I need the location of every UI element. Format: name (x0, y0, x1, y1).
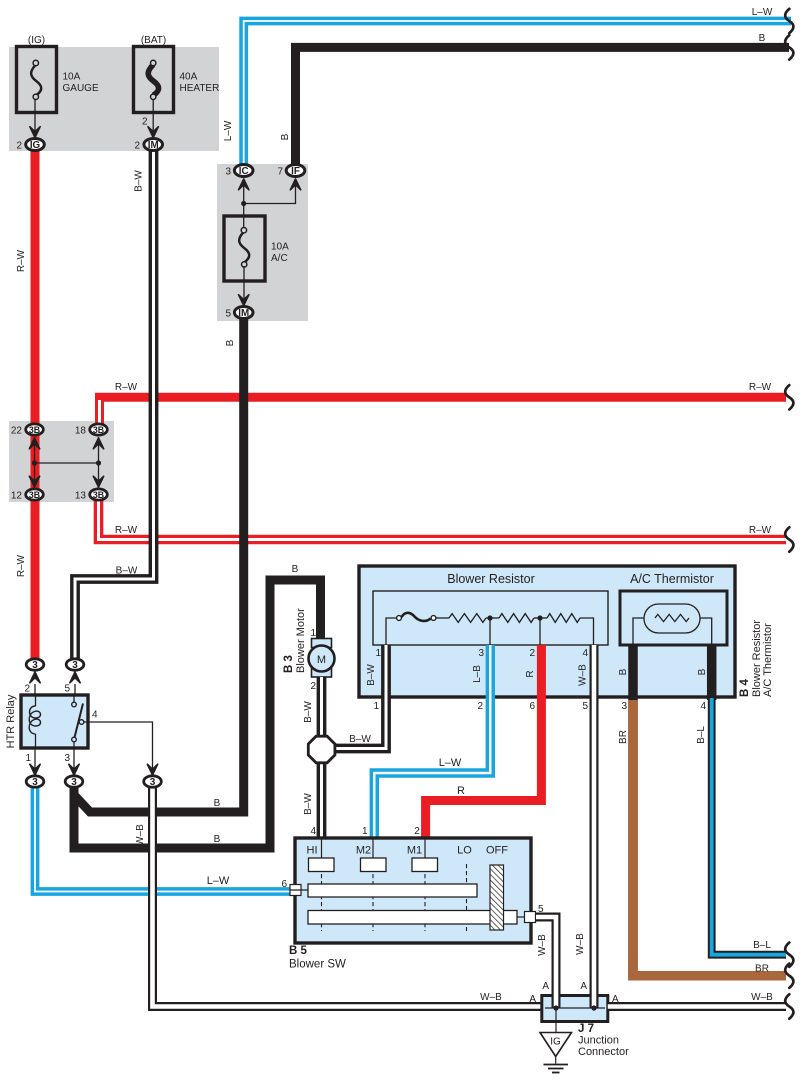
wire R-W striped from 3B pin 13 to right edge (99, 498, 787, 540)
svg-text:5: 5 (225, 309, 231, 320)
label 5 at IM (225, 309, 231, 320)
svg-text:B: B (759, 33, 766, 44)
label L-W horizontal (439, 757, 462, 769)
switch slider bar 2 (308, 911, 517, 925)
wire fuse A/C to IM (243, 266, 245, 300)
svg-text:B: B (214, 798, 221, 809)
svg-text:R–W: R–W (16, 249, 27, 272)
label B rotated near fuse (225, 339, 236, 346)
fuse 40A HEATER box (134, 47, 174, 113)
relay switch contact (72, 695, 84, 748)
wire B from top right edge into connector IF (296, 47, 790, 166)
svg-text:B 3: B 3 (283, 655, 295, 673)
svg-text:(IG): (IG) (28, 35, 45, 46)
connector oval 3B-18 (90, 424, 108, 435)
arrow into 3B 22 (29, 438, 39, 449)
label 12 (11, 491, 23, 502)
junction block 1 (fuse block IG/BAT) background (9, 47, 219, 151)
junction connector 3B block background (9, 421, 114, 502)
switch contact rect M1 (412, 838, 438, 872)
label Blower Resistor (447, 572, 535, 586)
connector oval 3 below pin1 (26, 776, 44, 788)
junction block 2 (A/C fuse) background (217, 164, 308, 321)
svg-text:4: 4 (310, 826, 316, 837)
svg-text:L–W: L–W (439, 757, 462, 769)
wire W-B J7 to right edge (608, 1002, 786, 1011)
svg-text:B–W: B–W (349, 734, 371, 745)
arrow into IF (290, 179, 300, 190)
svg-text:3B: 3B (93, 490, 104, 500)
label B-W rotated top (134, 170, 145, 192)
wire inside A/C fuse block (241, 186, 295, 228)
svg-text:B 4: B 4 (739, 679, 751, 698)
svg-text:2: 2 (134, 141, 140, 152)
label 13 (75, 491, 87, 502)
brace L-W top (785, 9, 793, 33)
svg-text:2: 2 (24, 684, 30, 695)
svg-text:J 7: J 7 (578, 1023, 594, 1035)
svg-text:W–B: W–B (537, 934, 548, 956)
switch OFF hatched bar (490, 865, 504, 930)
label 22 (11, 426, 23, 437)
label B above motor feed (292, 564, 299, 575)
svg-text:W–B: W–B (480, 992, 502, 1003)
svg-text:OFF: OFF (486, 845, 508, 857)
svg-text:R–W: R–W (749, 525, 772, 536)
svg-text:13: 13 (75, 491, 87, 502)
label B above upper horizontal (214, 798, 221, 809)
svg-text:(BAT): (BAT) (141, 35, 166, 46)
wire R-W main vertical from fuse IG to HTR relay (31, 146, 40, 660)
svg-text:BR: BR (618, 730, 629, 744)
connector oval IM (144, 139, 163, 151)
label R horizontal (457, 785, 465, 797)
connector oval 3B-22 (26, 424, 44, 435)
label W-B rotated lower (575, 933, 586, 955)
svg-text:3: 3 (478, 648, 484, 659)
arrow into IM (148, 127, 158, 138)
wire B-W octagon to blower switch HI (317, 760, 327, 840)
switch contact rect M2 (361, 838, 387, 872)
svg-text:W–B: W–B (135, 824, 146, 846)
wire W-B J7 entry stub right (590, 990, 599, 1008)
svg-text:L–B: L–B (472, 665, 483, 683)
wire relay pin2 up (34, 684, 36, 695)
wire R resistor pin2 to blower switch M1 (426, 645, 542, 840)
wire fuse BAT to connector (152, 99, 154, 132)
svg-text:5: 5 (582, 701, 588, 712)
ground symbol (544, 1057, 569, 1073)
label BR rotated (618, 730, 629, 744)
label 2 above IM (142, 117, 148, 128)
label pin 1 resistor (375, 648, 381, 659)
wire B-W resistor pin1 (336, 645, 387, 749)
svg-text:A: A (612, 994, 619, 1005)
svg-text:3: 3 (64, 753, 70, 764)
svg-text:18: 18 (75, 426, 87, 437)
label L-W horizontal lower (207, 875, 230, 887)
label L-B rotated (472, 665, 483, 683)
label J7 Junction Connector (578, 1023, 629, 1058)
label B-W rotated motor (303, 701, 314, 723)
brace B top (785, 35, 793, 59)
svg-text:Blower Motor: Blower Motor (295, 608, 307, 673)
arrow into oval pin4 (147, 764, 157, 775)
svg-text:B: B (280, 133, 291, 140)
label 1 relay (25, 753, 31, 764)
connector oval IC (234, 165, 253, 177)
blower resistor circuit (386, 613, 594, 645)
connector oval IM 5 (234, 307, 253, 319)
wire relay pin4 (84, 722, 153, 770)
label B top right (759, 33, 766, 44)
svg-text:1: 1 (362, 826, 368, 837)
svg-text:A: A (542, 981, 549, 992)
svg-text:B–W: B–W (134, 170, 145, 192)
svg-text:22: 22 (11, 426, 23, 437)
label pin 4 resistor (582, 648, 588, 659)
wire B thermistor right / B-L to right edge (712, 645, 786, 955)
svg-text:40A: 40A (180, 72, 198, 83)
switch slider bar 1 (308, 884, 477, 897)
wire relay pin5 up (74, 684, 76, 695)
label R-W lower left (115, 525, 138, 536)
svg-text:R: R (457, 785, 465, 797)
svg-text:3: 3 (32, 777, 38, 788)
label 4 switch (310, 826, 316, 837)
label B-W octagon right (349, 734, 371, 745)
svg-text:M: M (317, 654, 326, 666)
svg-text:2: 2 (142, 117, 148, 128)
label R-W upper left (115, 382, 138, 393)
svg-text:B–W: B–W (366, 664, 377, 686)
svg-text:R–W: R–W (115, 382, 138, 393)
svg-text:1: 1 (310, 628, 316, 639)
label 6 switch (281, 879, 287, 890)
J7 internal (545, 1005, 605, 1010)
svg-text:W–B: W–B (575, 933, 586, 955)
blower motor B3 (309, 639, 335, 678)
arrow into IG (30, 127, 40, 138)
fuse 10A A/C symbol (239, 228, 249, 268)
connector oval 3B-13 (90, 489, 108, 500)
svg-text:3: 3 (72, 660, 78, 671)
label B above lower horizontal (214, 834, 221, 845)
svg-text:10A: 10A (63, 72, 81, 83)
arrow into oval above pin2 (30, 672, 40, 683)
fuse 40A HEATER symbol (148, 60, 158, 99)
label (IG) (28, 35, 45, 46)
wire B from relay pin 3 oval to blower motor (74, 580, 321, 848)
arrow into oval above pin5 (70, 672, 80, 683)
svg-text:IG: IG (550, 1037, 561, 1048)
svg-text:2: 2 (16, 141, 22, 152)
label 3 relay (64, 753, 70, 764)
switch contact rect HI (309, 838, 335, 872)
wire W-B J7 entry stub left (552, 990, 561, 1008)
svg-text:R–W: R–W (16, 554, 27, 577)
arrow into IM 5 (239, 295, 249, 306)
connector oval 3 below pin3 (65, 776, 83, 788)
svg-text:HI: HI (307, 845, 318, 857)
brace BR (785, 964, 793, 988)
svg-text:M1: M1 (407, 845, 422, 857)
label L-W top right (752, 7, 773, 18)
svg-text:Blower Resistor: Blower Resistor (447, 572, 535, 586)
svg-text:6: 6 (281, 879, 287, 890)
junction octagon (308, 736, 335, 763)
label 2 motor (310, 681, 316, 692)
wire W-B switch pin5 to J7 (536, 917, 556, 996)
connector oval IG (26, 139, 45, 151)
label Blower Motor rotated (295, 608, 307, 673)
label B rotated thermistor left (618, 668, 629, 675)
svg-text:B–W: B–W (116, 566, 138, 577)
wire relay pin3 down (73, 748, 75, 770)
label pin 2 resistor (529, 648, 535, 659)
label 5 relay (64, 684, 70, 695)
label W-B horizontal left (480, 992, 502, 1003)
svg-text:3: 3 (32, 660, 38, 671)
label Blower SW (289, 959, 346, 971)
connector oval IF (286, 165, 305, 177)
svg-text:R: R (525, 670, 536, 677)
brace W-B (785, 994, 793, 1018)
svg-text:B: B (618, 668, 629, 675)
svg-text:3B: 3B (93, 425, 104, 435)
label A/C Thermistor (630, 572, 714, 586)
relay coil (29, 695, 40, 748)
label W-B rotated pin5 (537, 934, 548, 956)
brace B-L (785, 943, 793, 967)
brace R-W lower (785, 527, 793, 551)
blower resistor inner box (373, 591, 608, 645)
svg-text:4: 4 (700, 701, 706, 712)
svg-text:2: 2 (414, 826, 420, 837)
wire B from A/C fuse IM to relay pin 3 oval (75, 316, 244, 812)
svg-text:B–L: B–L (696, 726, 707, 744)
svg-text:B: B (292, 564, 299, 575)
arrow into 3B 18 (93, 438, 103, 449)
svg-text:4: 4 (582, 648, 588, 659)
label 1 motor (310, 628, 316, 639)
wire R-W horizontal upper (to 3B pin 18) (100, 397, 787, 424)
label B-W rotated octagon-switch (303, 793, 314, 815)
svg-text:3: 3 (150, 777, 156, 788)
svg-text:W–B: W–B (578, 664, 589, 686)
label (BAT) (141, 35, 166, 46)
svg-text:R–W: R–W (115, 525, 138, 536)
connector oval 3 above relay pin5 (66, 659, 84, 671)
fuse 10A GAUGE symbol (31, 60, 41, 99)
svg-text:IM: IM (238, 308, 249, 319)
connector oval 3 pin4 (144, 776, 162, 788)
label BR right (755, 964, 769, 975)
svg-text:IF: IF (291, 166, 300, 177)
svg-text:Connector: Connector (578, 1046, 629, 1058)
label 40A HEATER (180, 72, 220, 95)
fuse 10A A/C box (224, 216, 265, 281)
arrow into oval below pin1 (30, 764, 40, 775)
svg-text:3B: 3B (29, 490, 40, 500)
svg-text:B–W: B–W (303, 701, 314, 723)
label R-W lower right (749, 525, 772, 536)
svg-text:1: 1 (373, 701, 379, 712)
wire L-B/L-W resistor pin3 to blower switch M2 (374, 645, 490, 840)
svg-text:B–L: B–L (753, 940, 771, 951)
label B-W at corner (116, 566, 138, 577)
label B4 rotated (739, 620, 774, 697)
wire B-W motor to octagon (317, 677, 327, 738)
svg-text:6: 6 (529, 701, 535, 712)
label pin 3 resistor (478, 648, 484, 659)
label 2 at IG (16, 141, 22, 152)
label 2 relay (24, 684, 30, 695)
svg-text:2: 2 (310, 681, 316, 692)
switch dashed lines (322, 864, 467, 931)
svg-text:5: 5 (64, 684, 70, 695)
arrow into 3B 13 (93, 476, 103, 487)
label B-L right (753, 940, 771, 951)
svg-text:4: 4 (92, 710, 98, 721)
label 4 relay (92, 710, 98, 721)
labels HI M2 M1 LO OFF (307, 845, 509, 857)
J7 box (542, 996, 608, 1022)
svg-text:W–B: W–B (751, 992, 773, 1003)
label W-B rotated relay (135, 824, 146, 846)
svg-text:L–W: L–W (207, 875, 230, 887)
label B3 rotated (283, 655, 295, 673)
svg-text:A: A (529, 994, 536, 1005)
svg-text:M2: M2 (356, 845, 371, 857)
A/C thermistor inner box (620, 591, 727, 645)
wire B thermistor left / BR to right edge (633, 645, 786, 976)
B4 block body (359, 566, 735, 697)
svg-text:3: 3 (621, 701, 627, 712)
arrow into oval below pin3 (69, 764, 79, 775)
switch pin5 exit (517, 912, 536, 923)
label R-W upper right (749, 382, 772, 393)
svg-text:LO: LO (457, 845, 472, 857)
label B rotated (280, 133, 291, 140)
svg-text:BR: BR (755, 964, 769, 975)
svg-text:A/C Thermistor: A/C Thermistor (762, 623, 774, 697)
svg-text:10A: 10A (271, 242, 289, 253)
svg-text:R–W: R–W (749, 382, 772, 393)
ground triangle IG (540, 1033, 572, 1057)
label R-W rotated lower (16, 554, 27, 577)
svg-text:L–W: L–W (223, 120, 234, 141)
ground wire from J7 (555, 1008, 557, 1032)
label W-B rotated pin4 (578, 664, 589, 686)
svg-text:2: 2 (477, 701, 483, 712)
wire L-W from top right edge into connector IC (244, 21, 791, 166)
wire fuse IG to connector (34, 99, 36, 132)
label W-B right (751, 992, 773, 1003)
svg-text:B 5: B 5 (289, 945, 308, 957)
wire B-W from IM connector to HTR relay pin 5 (75, 146, 154, 661)
svg-text:A: A (580, 981, 587, 992)
label 7 at IF (277, 167, 283, 178)
svg-text:B: B (697, 668, 708, 675)
label R rotated (525, 670, 536, 677)
connector oval 3 above relay pin2 (26, 659, 44, 671)
labels A at J7 (529, 981, 619, 1005)
svg-text:B: B (214, 834, 221, 845)
label 10A GAUGE (63, 72, 99, 95)
label 18 (75, 426, 87, 437)
svg-text:12: 12 (11, 491, 23, 502)
label 3 at IC (225, 167, 231, 178)
svg-text:2: 2 (529, 648, 535, 659)
svg-text:IG: IG (30, 140, 41, 151)
label R-W rotated upper (16, 249, 27, 272)
svg-text:3: 3 (225, 167, 231, 178)
arrow into 3B 12 (29, 476, 39, 487)
svg-text:IC: IC (239, 166, 249, 177)
wire L-W relay pin1 to blower switch pin6 (35, 788, 296, 892)
arrow into IC (239, 179, 249, 190)
svg-text:Blower SW: Blower SW (289, 959, 346, 971)
brace R-W upper (785, 385, 793, 409)
label B-L rotated (696, 726, 707, 744)
svg-text:GAUGE: GAUGE (63, 83, 99, 94)
label B5 (289, 945, 308, 957)
svg-text:L–W: L–W (752, 7, 773, 18)
label 10A A/C (271, 242, 289, 265)
label B rotated thermistor right (697, 668, 708, 675)
HTR relay box (21, 695, 88, 748)
svg-text:3B: 3B (29, 425, 40, 435)
fuse 10A GAUGE box (17, 47, 57, 113)
svg-text:3: 3 (71, 777, 77, 788)
svg-text:A/C Thermistor: A/C Thermistor (630, 572, 714, 586)
svg-text:1: 1 (375, 648, 381, 659)
svg-text:7: 7 (277, 167, 283, 178)
junction 3B internal wires (32, 437, 101, 489)
label pins below B4 block (373, 701, 706, 712)
label 2 at IM (134, 141, 140, 152)
wire relay pin1 down (34, 748, 36, 770)
wire W-B from relay pin4 oval to J7 (153, 788, 542, 1007)
svg-text:HEATER: HEATER (180, 83, 220, 94)
svg-text:1: 1 (25, 753, 31, 764)
blower switch box (295, 838, 531, 943)
thermistor symbol (633, 604, 712, 645)
label L-W rotated (223, 120, 234, 141)
connector oval 3B-12 (26, 489, 44, 500)
label HTR Relay rotated (5, 694, 17, 748)
svg-text:A/C: A/C (271, 253, 288, 264)
svg-text:HTR Relay: HTR Relay (5, 694, 17, 748)
wire W-B resistor pin4 to J7 (590, 645, 599, 996)
label 1 switch (362, 826, 368, 837)
switch pin6 entry (290, 885, 308, 896)
label 5 switch (538, 904, 544, 915)
label B-W rotated pin1 (366, 664, 377, 686)
svg-text:B: B (225, 339, 236, 346)
svg-text:IM: IM (148, 140, 159, 151)
label 2 switch (414, 826, 420, 837)
svg-text:B–W: B–W (303, 793, 314, 815)
svg-text:Junction: Junction (578, 1035, 619, 1047)
